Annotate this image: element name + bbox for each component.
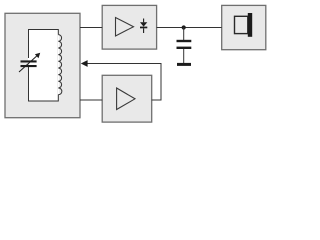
- block U4 loudspeaker box: [222, 5, 266, 49]
- amplifier A1 triangle: [116, 18, 134, 37]
- wire: junction down to filter capacitor: [183, 28, 185, 41]
- block U3 audio amplifier box: [102, 75, 152, 122]
- wire: amplifier-demodulator to loudspeaker: [157, 27, 222, 29]
- node: junction dot: [182, 25, 186, 29]
- wire: filter capacitor to ground: [183, 49, 185, 63]
- loudspeaker LS1 symbol: [235, 13, 253, 37]
- amplifier A2 triangle: [117, 88, 135, 110]
- inductor L1 coil: [58, 35, 62, 95]
- wire: oscillator to audio amplifier: [80, 99, 102, 101]
- wire: audio amplifier output feedback run: [87, 63, 161, 101]
- ground: [177, 63, 191, 66]
- capacitor C2 filter: [177, 40, 192, 49]
- diode D1 detector: [140, 19, 147, 34]
- wire: oscillator to amplifier-demodulator: [80, 27, 102, 29]
- variable capacitor C1 plates: [21, 58, 37, 67]
- variable capacitor C1 adjustment arrow: [19, 53, 40, 72]
- feedback arrowhead into oscillator: [81, 60, 88, 67]
- tank circuit loop (white inner rectangle): [29, 30, 59, 102]
- block U2 amplifier-demodulator box: [102, 5, 156, 49]
- block U1 oscillator/tuner box: [5, 13, 80, 117]
